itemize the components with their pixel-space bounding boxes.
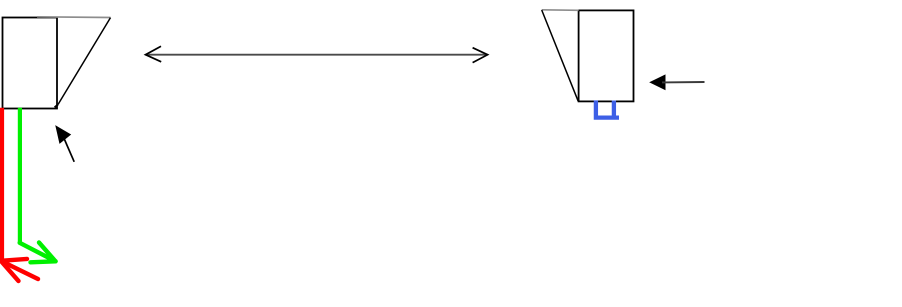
double headed arrow line <box>146 54 488 56</box>
green arrow shaft <box>20 243 56 261</box>
right shape triangle diagonal <box>542 10 579 101</box>
green vertical line <box>18 108 22 243</box>
right shape triangle top edge (gray) <box>542 9 579 12</box>
red arrow lower barb <box>1 261 19 281</box>
red vertical line <box>0 108 4 260</box>
left shape triangle top edge (gray) <box>37 16 111 19</box>
small black arrow head (pointing at left shape corner) <box>56 126 70 143</box>
red arrow upper barb <box>1 259 27 261</box>
green arrow left barb <box>31 261 56 262</box>
left shape corner hook <box>55 105 58 108</box>
left shape rectangle <box>3 18 58 109</box>
right shape rectangle <box>579 10 634 101</box>
red arrow shaft <box>1 261 38 279</box>
double headed arrow left head <box>146 46 162 62</box>
small black arrow shaft <box>65 140 75 162</box>
green arrow upper barb <box>39 243 56 262</box>
right black arrow head <box>650 75 665 89</box>
double headed arrow right head <box>473 48 488 63</box>
right black arrow shaft <box>662 81 705 83</box>
left shape triangle diagonal <box>58 18 111 105</box>
blue U bracket <box>596 100 619 117</box>
